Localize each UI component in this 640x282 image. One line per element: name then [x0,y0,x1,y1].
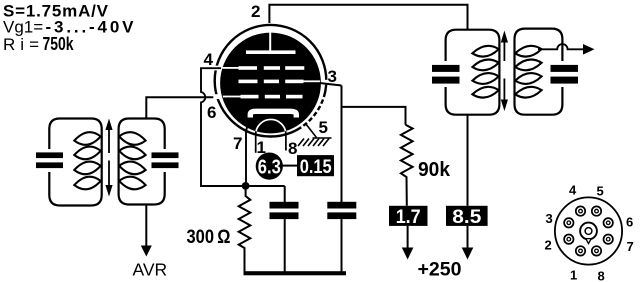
output arrow [583,44,595,55]
coupling arrow up (T2) [501,31,508,62]
socket pin 6 [604,218,613,227]
svg-text:8.5: 8.5 [452,207,481,228]
coil L1 of T1 primary [74,132,100,189]
svg-text:+250: +250 [418,260,462,281]
socket pin 7 [604,235,613,244]
chassis ground hatching [298,138,332,146]
grid g2 row (pin 3) [239,80,321,84]
svg-text:AVR: AVR [133,259,168,279]
svg-text:5: 5 [319,118,328,137]
anode lead (white inside disc) [269,32,271,52]
coil L3 of T2 primary [472,46,498,98]
heater current 0.15 (box badge) [297,155,334,176]
connector 6.3 to 0.15 [282,165,298,167]
anode current badge 8.5 [446,206,488,226]
socket key [586,239,591,244]
screen bypass capacitor C2 [341,86,343,203]
socket pin 4 [576,206,585,215]
output IF transformer T2 primary tank [446,30,500,115]
svg-text:4: 4 [569,183,577,198]
AVR arrow [141,246,152,257]
svg-text:7: 7 [627,239,634,254]
tube V1 inner black disc [220,33,321,134]
heater filament dome (black part outside disc) [256,119,286,151]
output IF transformer T2 secondary tank [515,29,563,115]
anode plate bar [246,50,296,54]
chassis lead from pin 5 [306,124,317,139]
svg-text:750k: 750k [43,34,75,54]
coupling arrow down (T1) [105,161,112,197]
heater lead pin 8 (right leg extension) [285,148,287,151]
ring break at g2 lead (right, pin 3) [321,80,329,85]
wire T2 primary bottom to 8.5 badge [467,115,469,206]
coupling arrow up (T1) [105,119,112,154]
wire g2 (pin 3) to screen node [320,83,342,86]
socket pin 3 [564,218,573,227]
svg-text:2: 2 [545,238,552,253]
svg-text:8: 8 [598,269,605,282]
capacitor in T1 primary (left plates) [40,149,59,172]
arrow to +250 (screen feed) [407,226,409,249]
heater value 6.3 (circle badge) [256,153,283,180]
wire screen node to R2 [342,107,406,125]
svg-text:300 Ω: 300 Ω [187,227,231,248]
socket pin 1 [576,246,585,255]
svg-text:8: 8 [288,139,297,158]
svg-text:5: 5 [597,184,604,199]
svg-text:6: 6 [207,103,216,122]
socket outline (base view) [555,197,622,264]
cathode resistor R1 300 ohm [239,189,251,272]
ring break at g1 lead (left, pin 6) [213,94,221,99]
svg-text:0.15: 0.15 [300,157,332,178]
ring break at g3 lead (left, pin 4) [213,66,221,71]
svg-text:6: 6 [626,215,633,230]
coil L4 of T2 secondary [515,46,541,98]
wire T1 secondary bottom to AVR [145,205,147,248]
tube V1 envelope ring [215,25,327,137]
dashed rim sector (internal shield, pin 5 side) [300,97,324,128]
grid g3 row (pin 4) [223,66,305,70]
svg-text:90k: 90k [418,159,451,181]
coupling arrow down (T2) [501,79,508,112]
ground rail [244,271,347,275]
svg-text:1: 1 [570,268,577,282]
svg-text:7: 7 [233,134,242,153]
screen resistor R2 90k [401,125,413,206]
cathode lead wire (pin 7) [246,118,249,185]
junction node (cathode/g3/R1/C1) [242,182,250,190]
arrow to +250 (anode feed) [467,226,469,249]
capacitor in T2 secondary (right plates) [553,62,572,87]
wire T1 secondary top to grid g1 [146,97,221,118]
svg-text:Ri=: Ri= [3,35,39,54]
grid g1 row (pin 6) [223,95,303,99]
svg-text:1.7: 1.7 [396,207,421,228]
svg-text:Vg1=: Vg1= [3,18,43,37]
output wire with hop over tank edge [538,44,585,49]
heater lead pin 1 (left leg extension) [255,149,257,153]
svg-text:2: 2 [251,2,260,21]
socket center spigot [580,223,597,240]
capacitor in T2 primary (left plates) [436,62,455,87]
capacitor in T1 secondary (right plates) [155,149,174,172]
cathode (white arch) [250,111,296,117]
svg-text:6.3: 6.3 [258,157,281,179]
svg-text:4: 4 [204,50,214,69]
socket pin 5 [592,206,601,215]
anode wire pin2 to T2 primary [269,5,467,30]
socket pin 2 [564,235,573,244]
input IF transformer T1 secondary tank [119,119,165,205]
screen current badge 1.7 [389,206,428,226]
coil L2 of T1 secondary [119,132,145,189]
g3-to-cathode bracket wire (pin 4) with hop over grid wire [201,68,285,186]
socket pin 8 [592,246,601,255]
input IF transformer T1 primary tank [49,119,101,206]
svg-text:3: 3 [546,211,553,226]
cathode bypass capacitor C1 [284,186,286,202]
